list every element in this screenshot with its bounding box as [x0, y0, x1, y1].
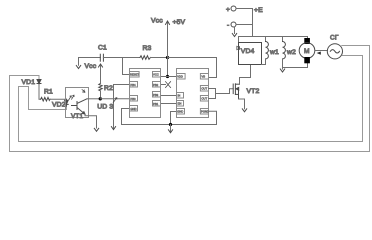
svg-text:+E: +E	[254, 7, 263, 14]
wire PB2 to crystal	[161, 84, 166, 86]
resistor R1	[41, 97, 51, 101]
wire rail to VDB pin of IC2	[168, 58, 217, 78]
light mark in VT1 box corner	[82, 90, 85, 93]
svg-text:GND: GND	[177, 110, 183, 114]
wire outer feedback loop (generator top to VD1 anode)	[10, 46, 370, 152]
wire - terminal to rail	[236, 24, 253, 26]
motor M	[299, 38, 315, 63]
svg-text:R2: R2	[104, 85, 113, 92]
svg-text:OUT: OUT	[201, 97, 207, 101]
svg-text:IN: IN	[178, 94, 181, 98]
transistor VT2 (n-MOSFET)	[233, 84, 239, 99]
IC U1 (microcontroller)	[130, 69, 161, 118]
wire VT2 drain to VD4 bottom	[240, 65, 251, 85]
ground rail under ICs	[122, 124, 217, 126]
shaft motor to generator	[315, 50, 328, 52]
voltage arrow UD3 (vertical, arrowhead at bottom)	[113, 85, 115, 130]
svg-text:w2: w2	[286, 49, 296, 56]
svg-text:VT1: VT1	[71, 113, 83, 120]
svg-text:GND: GND	[130, 107, 136, 111]
svg-text:PGND: PGND	[201, 110, 209, 114]
generator SG	[327, 44, 342, 59]
node A (R2 / collector / PB4)	[99, 97, 102, 100]
ground (w2 / motor)	[282, 68, 284, 70]
inductor w2	[283, 42, 286, 59]
svg-text:VD1: VD1	[22, 79, 36, 86]
collector wire to node	[87, 98, 100, 100]
ground (minus terminal)	[232, 34, 236, 37]
coupling arrow	[317, 52, 321, 55]
svg-text:PB0: PB0	[130, 97, 136, 101]
svg-text:R1: R1	[44, 89, 53, 96]
wire VD1 cathode to R1	[39, 85, 41, 99]
diode VD4 (box)	[239, 43, 262, 65]
svg-text:VDD: VDD	[177, 75, 183, 79]
tick mark after UD3	[113, 98, 117, 103]
ground (VT1 emitter)	[94, 128, 98, 131]
svg-text:VD4: VD4	[241, 48, 255, 55]
wire - terminal to ground	[234, 27, 236, 34]
light arrows inside VT1	[69, 95, 74, 100]
crystal X	[166, 82, 171, 88]
opto-coupler VT1 box	[66, 88, 89, 118]
svg-text:VCC: VCC	[153, 73, 159, 77]
wire R3 to node dot1	[151, 57, 168, 59]
wire UD3 riser to PB4 pin	[114, 84, 130, 86]
resistor R2	[99, 83, 102, 91]
svg-text:C1: C1	[98, 45, 107, 52]
Vcc pull-up arrow above R2	[100, 65, 102, 84]
wire tap to RESET pin	[123, 58, 130, 75]
wire +E rail down	[252, 9, 254, 37]
wire R1 to LED VD2	[50, 98, 66, 100]
emitter wire to ground	[85, 114, 97, 128]
wire VT2 source to ground	[239, 99, 245, 109]
svg-text:w1: w1	[269, 49, 279, 56]
svg-text:VT2: VT2	[247, 88, 260, 95]
wire PB1 to EN	[161, 103, 177, 105]
wire C1 to R3	[103, 57, 140, 59]
wire dot1 to dot2	[167, 58, 169, 77]
node dot1 (+5V rail)	[166, 56, 169, 59]
svg-text:UD 3: UD 3	[97, 103, 113, 110]
wire top distribution rail	[239, 36, 308, 38]
junction dot on ground rail	[169, 123, 172, 126]
inductor w1	[266, 42, 269, 59]
svg-text:EN: EN	[178, 102, 182, 106]
wire IC2 GND to rail	[171, 112, 177, 125]
ground arrow below rail	[170, 125, 172, 133]
wire w2 to motor bottom	[283, 64, 308, 68]
capacitor C1	[100, 54, 103, 61]
wire w2 bottom	[282, 59, 284, 68]
svg-text:-: -	[227, 22, 229, 29]
svg-text:PB4: PB4	[130, 83, 136, 87]
wire ground to C1	[79, 57, 101, 59]
wire w1 bottom to VD4	[262, 59, 266, 65]
phototransistor VT1	[72, 99, 88, 114]
svg-text:OUT: OUT	[201, 87, 207, 91]
wire w2 top	[282, 37, 284, 42]
svg-text:R3: R3	[143, 45, 152, 52]
wire w1 top	[265, 37, 267, 42]
wire VCC to VDD	[161, 76, 177, 78]
wire OUT bracket to VT2 gate	[209, 89, 216, 99]
svg-text:+5V: +5V	[173, 19, 186, 26]
wire node to UD3 riser	[100, 98, 129, 100]
diode VD1	[37, 80, 41, 86]
svg-text:Vcc: Vcc	[85, 63, 97, 70]
svg-text:PB3: PB3	[153, 93, 159, 97]
svg-text:PB2: PB2	[153, 83, 159, 87]
wire motor top	[307, 37, 309, 38]
svg-text:RESET: RESET	[130, 73, 139, 77]
wire rail to VD4 box	[238, 37, 240, 43]
ground (VT2 source)	[242, 109, 246, 112]
ground (C1 left plate)	[78, 58, 80, 66]
svg-text:VB: VB	[201, 75, 205, 79]
svg-text:M: M	[304, 48, 310, 55]
node dot2 (VCC-VDD)	[166, 75, 169, 78]
tiny diode glyph VD4	[237, 46, 240, 49]
svg-text:Vcc: Vcc	[151, 18, 163, 25]
wire + terminal to rail	[236, 8, 253, 10]
resistor R3	[140, 56, 151, 60]
+5V supply arrow	[167, 22, 169, 58]
wire IC2 PGND to rail	[209, 111, 217, 124]
wire PB3 to IN	[161, 95, 177, 97]
svg-text:PB1: PB1	[153, 102, 159, 106]
diode VD2 (opto LED)	[65, 99, 69, 106]
svg-text:VD2: VD2	[52, 102, 66, 109]
svg-text:СГ: СГ	[330, 35, 339, 42]
svg-text:+: +	[226, 7, 230, 14]
wire inner feedback loop (LED cathode rail to generator bottom)	[19, 56, 363, 142]
IC U2 (gate driver)	[177, 69, 209, 118]
wire IC1 GND to rail	[122, 109, 130, 125]
